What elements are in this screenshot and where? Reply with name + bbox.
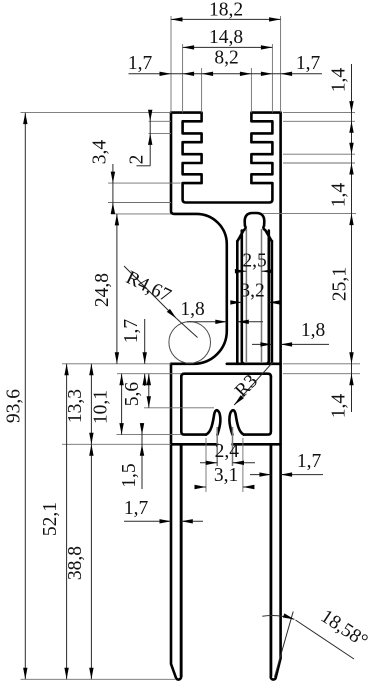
dimension line 1,7 right leg — [250, 474, 271, 476]
extension left: cavity floor — [117, 434, 182, 436]
arrow 8,2 left — [202, 72, 214, 76]
extension up: 18,2 left — [170, 16, 172, 113]
svg-text:52,1: 52,1 — [40, 502, 61, 536]
svg-text:13,3: 13,3 — [65, 389, 86, 423]
dimension line 18,2 — [171, 18, 281, 20]
right screw prong — [229, 410, 243, 434]
extension up: 14,8 left — [182, 44, 184, 113]
arrow 25,1 top — [349, 214, 353, 226]
dimension line 1,8 neck — [187, 321, 227, 323]
svg-text:10,1: 10,1 — [91, 390, 112, 424]
lower thread slot line right (2,4) — [232, 427, 234, 466]
dimension chain line 1,7 / 8,2 / 1,7 — [129, 73, 323, 75]
left outer wall and left leg with chamfered rounded tip — [171, 364, 181, 680]
arrow 1,7-left inner — [183, 72, 195, 76]
extension up: 18,2 right — [280, 16, 282, 113]
svg-text:1,7: 1,7 — [297, 451, 322, 472]
extension: profile top to 93,6 — [21, 112, 172, 114]
dimension line 1,5 — [141, 423, 143, 489]
extension: slot1 top (dim 2) — [149, 120, 171, 122]
leader R4,67 — [124, 266, 177, 319]
svg-text:5,6: 5,6 — [122, 382, 143, 407]
arrow 1,4 tooth3 bottom — [349, 163, 353, 175]
extension: tooth4 bottom (dim 3,4) — [108, 182, 181, 184]
extension right: tooth3 top (1,4) — [283, 153, 355, 155]
arrow 1,4 ledge bottom — [349, 374, 353, 386]
dimension line 24,8 — [116, 214, 118, 364]
svg-text:8,2: 8,2 — [214, 48, 238, 69]
svg-text:3,4: 3,4 — [89, 140, 110, 165]
arrow 1,4 tooth1 bottom — [349, 121, 353, 133]
svg-text:1,7: 1,7 — [124, 498, 149, 519]
svg-text:1,7: 1,7 — [296, 53, 321, 74]
dimension line 52,1 — [66, 364, 68, 680]
bottle inner left wall — [242, 231, 245, 364]
dimension line 3,2 — [233, 301, 242, 303]
svg-text:1,4: 1,4 — [329, 68, 350, 93]
svg-text:18,2: 18,2 — [209, 0, 243, 21]
arrow 13,3 bottom — [89, 433, 93, 445]
leader R3 — [234, 362, 273, 405]
arrow 38,8 bottom — [89, 668, 93, 680]
svg-text:14,8: 14,8 — [209, 27, 243, 48]
svg-text:1,8: 1,8 — [301, 320, 325, 341]
chamfer extension line for angle — [275, 612, 294, 678]
left screw prong — [206, 410, 220, 434]
dimension line 3,4 — [112, 164, 114, 214]
extension: leg tip level — [21, 678, 177, 680]
dimension line 13,3 / 38,8 — [90, 364, 92, 680]
extension up: 14,8 right — [271, 44, 273, 113]
screw bottle cap with bulb notches — [237, 213, 272, 241]
extension right: tooth3 bottom (1,4) — [283, 162, 355, 164]
dimension line 2 (slot height) — [149, 113, 151, 166]
extension right: tooth1 bottom (1,4) — [283, 120, 355, 122]
svg-text:3,1: 3,1 — [214, 465, 238, 486]
svg-text:1,5: 1,5 — [119, 463, 140, 487]
arrow 8,2 right — [240, 72, 252, 76]
dimension line 2,4 — [200, 462, 217, 464]
dimension line 14,8 — [183, 46, 273, 48]
right leg inner wall — [270, 444, 273, 676]
svg-text:38,8: 38,8 — [65, 546, 86, 580]
arrow 1,4 tooth3 top — [349, 143, 353, 155]
box bottom edge left segment — [171, 443, 217, 446]
extension left: box bottom — [62, 443, 171, 445]
svg-text:93,6: 93,6 — [4, 389, 25, 423]
R4,67 inscribed reference circle — [169, 322, 211, 364]
dimension line 1,8 right wall — [252, 343, 272, 345]
lower cavity left wall and floor (left segment) — [181, 377, 206, 435]
svg-text:3,2: 3,2 — [240, 281, 264, 302]
dimension line 3,1 — [196, 486, 206, 488]
svg-text:2: 2 — [127, 155, 148, 165]
extension up: 8,2 left — [201, 68, 203, 113]
svg-text:24,8: 24,8 — [92, 273, 113, 307]
extension down: prong base right (3,1) — [242, 438, 244, 492]
bottle outer left wall — [236, 241, 239, 364]
arrow 25,1 bottom — [349, 352, 353, 364]
extension right: tooth1 top (1,4) — [283, 112, 355, 114]
extension: prong tip level (5,6) — [144, 407, 214, 409]
svg-text:1,4: 1,4 — [329, 394, 350, 419]
thread slot line right (2,5) — [261, 229, 263, 362]
heatsink channel with comb fins (top section outline) — [171, 113, 281, 203]
lower cavity right wall and floor (right segment) — [244, 377, 271, 435]
arrow 38,8 top — [89, 444, 93, 456]
dimension line 93,6 — [24, 113, 26, 680]
left leg inner wall — [180, 444, 183, 676]
left wall, plate bottom, fillet to neck wall, flare arc to ledge — [171, 113, 227, 364]
leader under angle text — [296, 620, 355, 659]
thread slot line left (2,5) — [245, 229, 247, 362]
bottle outer right wall — [271, 241, 274, 364]
bottle inner right wall — [266, 231, 269, 364]
svg-text:25,1: 25,1 — [330, 267, 351, 301]
arrow 1,7-left outer — [160, 72, 172, 76]
extension: plate bottom left (dim 24,8) — [111, 213, 171, 215]
extension left: cavity top — [117, 373, 181, 375]
right dimension column (1,4 / 25,1 / 1,4) — [351, 64, 353, 412]
lower cavity top edge — [181, 374, 271, 377]
right outer wall full height and right leg with chamfered rounded tip — [271, 113, 281, 680]
svg-text:2,5: 2,5 — [242, 251, 266, 272]
dimension line 2,5 — [238, 270, 247, 272]
ledge / screw-channel bottom (right part) — [227, 362, 281, 365]
svg-text:1,4: 1,4 — [329, 183, 350, 208]
dimension line 5,6 — [148, 374, 150, 408]
svg-text:1,8: 1,8 — [180, 299, 204, 320]
extension: channel floor left (dim 3,4) — [108, 202, 171, 204]
svg-text:1,7: 1,7 — [121, 319, 142, 344]
extension left: ledge top — [62, 363, 171, 365]
extension up: 8,2 right — [250, 68, 252, 113]
extension from bottle cap top (for 25,1) — [263, 213, 357, 215]
extension right: ledge top — [283, 363, 360, 365]
dimension line 1,7 ledge upper part — [144, 319, 146, 364]
dimension line 10,1 — [121, 374, 123, 435]
extension: slot1 bottom (dim 2) — [149, 132, 171, 134]
dimension line 1,7 left leg — [124, 520, 171, 522]
arrow 1,4 tooth1 top — [349, 101, 353, 113]
svg-text:2,4: 2,4 — [215, 441, 240, 462]
extension right: cavity top — [283, 373, 360, 375]
extension down: prong base left (3,1) — [205, 438, 207, 492]
svg-text:1,7: 1,7 — [128, 53, 153, 74]
arrow 1,7-right inner — [261, 72, 273, 76]
arrow 1,7-right outer — [281, 72, 293, 76]
lower thread slot line left (2,4) — [216, 427, 218, 466]
angle arc 18,58 — [262, 615, 294, 619]
box bottom edge right segment — [233, 443, 281, 446]
